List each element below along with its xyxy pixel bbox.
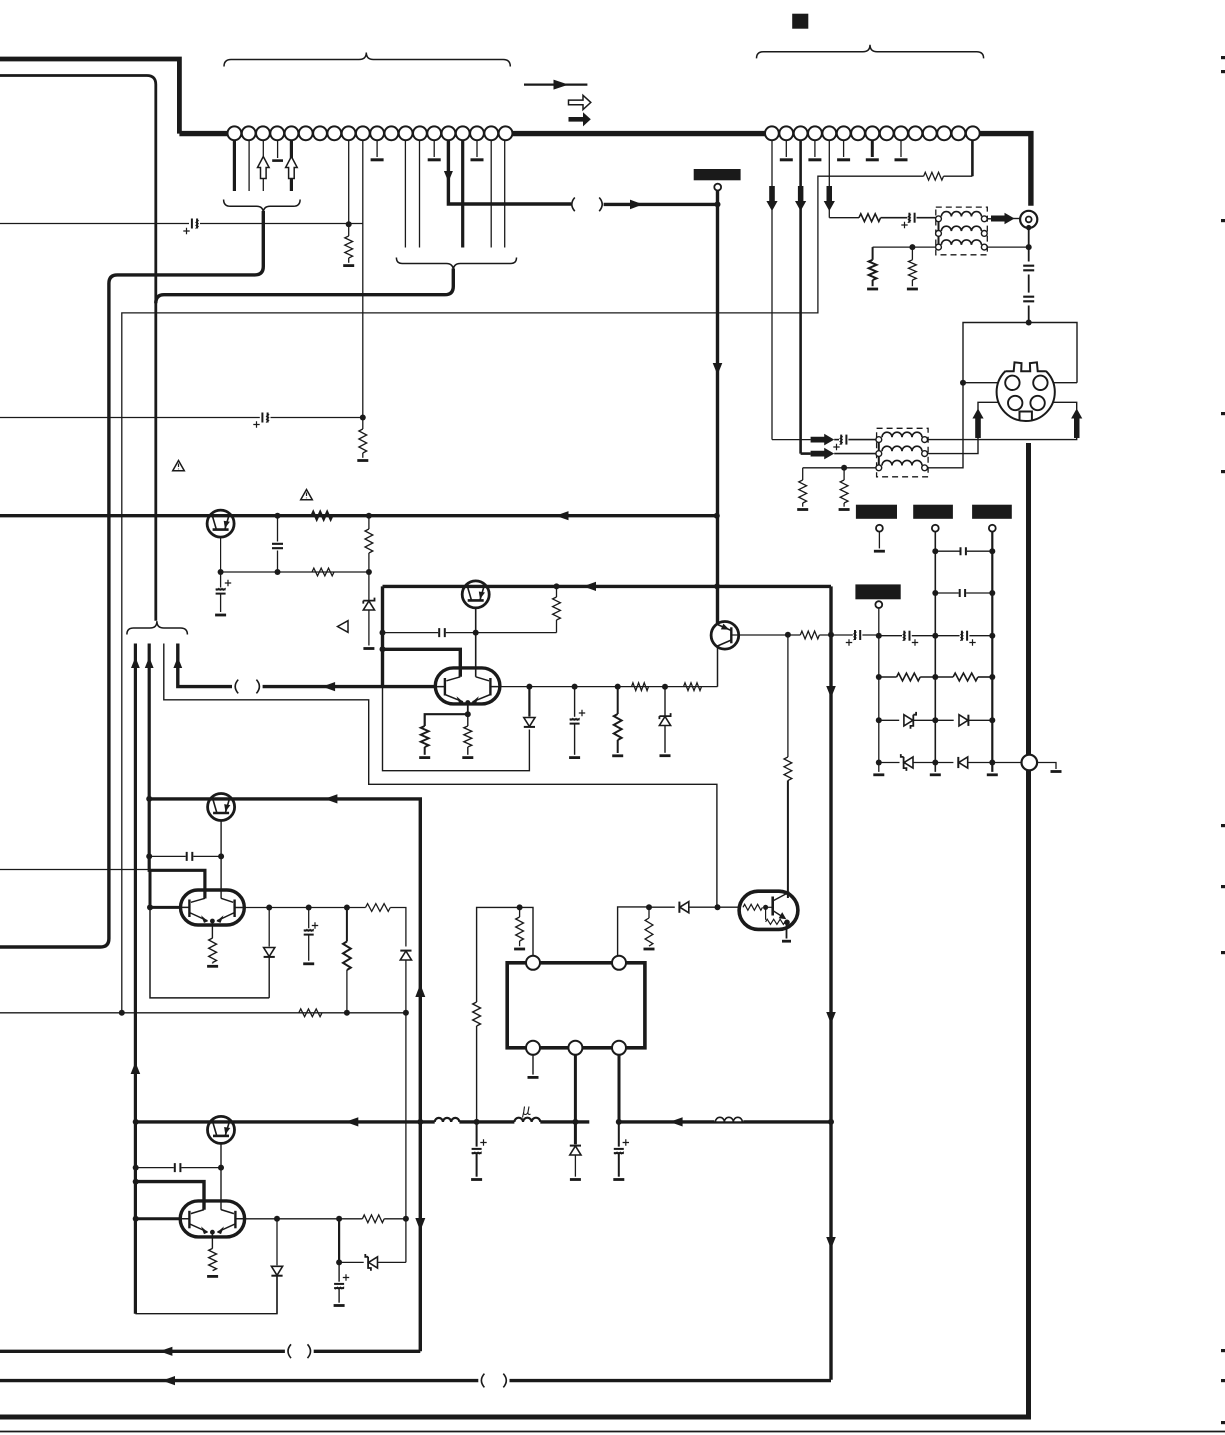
bus connector J1-J2 top xyxy=(179,134,1031,206)
node W1 L xyxy=(133,1179,139,1185)
wire medium from left edge down left column xyxy=(0,76,156,621)
wire Q5 emitter xyxy=(786,923,788,939)
arrow up W4 xyxy=(173,657,182,668)
wire Q3 stem xyxy=(475,608,477,677)
wire RCA ground chain xyxy=(1028,228,1030,323)
arrow on W4 xyxy=(322,682,335,691)
wire Q6 stem xyxy=(220,821,222,899)
legend arrow open block xyxy=(569,95,591,109)
node q9 d2 xyxy=(336,1216,342,1222)
wire R21 to Q9 xyxy=(787,781,789,899)
J1 pin 9 wire xyxy=(348,140,350,224)
inductor L1 xyxy=(435,1118,460,1122)
arrow row2 xyxy=(811,448,835,460)
wire caps row B-C xyxy=(935,635,959,637)
black label rect A xyxy=(856,505,897,519)
wire Q2 base loop xyxy=(383,687,530,771)
bus supply line B xyxy=(383,585,832,588)
J1 pin 19 wire xyxy=(490,140,492,247)
wire x339 drop xyxy=(338,1219,340,1263)
node B diode row2 xyxy=(932,760,938,766)
black label rect D xyxy=(855,584,900,599)
J2 ground pin 4 xyxy=(866,140,879,160)
node y572 b xyxy=(275,569,281,575)
resistor R4 xyxy=(312,568,334,576)
node C diode row1 xyxy=(989,717,995,723)
arrow down x831 mid xyxy=(826,1012,836,1024)
resistor R13 xyxy=(800,631,819,639)
arrow up S-video right xyxy=(1071,409,1082,439)
zener diode D6 xyxy=(901,754,913,771)
capacitor C19 electrolytic xyxy=(614,1122,629,1177)
wire zener link xyxy=(339,1261,364,1263)
arrow to RCA xyxy=(991,213,1015,225)
wire BC row1 xyxy=(935,550,992,552)
ground G16 xyxy=(873,773,884,776)
wire right pin link xyxy=(1048,382,1077,384)
node C diode row2 xyxy=(989,760,995,766)
resistor R11 inline xyxy=(632,683,649,691)
wire line2 left xyxy=(0,417,260,419)
wire base line to x831 xyxy=(819,634,852,636)
wire J2 pin1 drop xyxy=(771,140,773,439)
diode D5 xyxy=(959,715,968,726)
wire bottom return B right xyxy=(510,1379,832,1382)
ground G17 xyxy=(930,773,941,776)
ground G4 xyxy=(363,647,374,650)
wire row1 cap link xyxy=(834,439,839,441)
node bus D x575 xyxy=(572,1119,578,1125)
diode D11 xyxy=(570,1122,581,1177)
J1 pin 11 ground xyxy=(371,140,384,160)
transformer T2 winding 1 xyxy=(882,432,922,437)
wire U1 botright xyxy=(618,1055,621,1122)
node q9 d1 xyxy=(274,1216,280,1222)
diode D12 xyxy=(271,1219,282,1314)
capacitor C18 electrolytic xyxy=(472,1122,487,1177)
node y572 a xyxy=(218,569,224,575)
J1 pin 10 wire xyxy=(362,140,364,417)
wire R14 to C8 xyxy=(881,217,908,219)
J1 pin 1 wire xyxy=(233,140,236,191)
wire W2 xyxy=(149,644,205,899)
ground G10 xyxy=(867,288,878,291)
resistor R9 xyxy=(464,714,472,755)
J1 pin 3 wire xyxy=(262,140,264,191)
wire w-row1 into T2 xyxy=(772,439,811,441)
transformer T2 dashed box xyxy=(877,428,929,477)
wire cap row y1167 xyxy=(136,1167,221,1169)
capacitor C5 xyxy=(438,628,446,637)
wire bottom return A right xyxy=(314,1350,421,1353)
node q7 d2 xyxy=(306,905,312,911)
resistor R6 xyxy=(924,172,944,180)
J1 pin 18 ground xyxy=(471,140,484,160)
warning triangle 3 left-pointing xyxy=(338,621,349,633)
ground G15 xyxy=(1051,770,1062,773)
inductor L3 xyxy=(714,1113,743,1122)
node U1 in xyxy=(517,904,523,910)
node RCA shield xyxy=(1026,225,1031,230)
wire collector line x787 xyxy=(787,635,789,757)
wire y572 link xyxy=(221,571,369,573)
transistor Q9 dual oval xyxy=(180,1201,244,1237)
node bus B x717 xyxy=(714,583,720,589)
wire R27 corner down xyxy=(390,908,406,947)
wire L to Q9 collector xyxy=(136,1182,204,1210)
J1 pin 14 wire xyxy=(419,140,421,247)
wire T1 out row1 xyxy=(987,218,991,220)
wire diode row1 c xyxy=(968,719,992,721)
wire rectA ground xyxy=(878,532,880,549)
arrow up W1 xyxy=(131,657,140,668)
wire J2 pin3 drop xyxy=(799,140,802,453)
node box top xyxy=(1026,320,1032,326)
diode D2 xyxy=(524,687,535,727)
transistor Q8 xyxy=(208,1116,235,1143)
node A diode row2 xyxy=(876,760,882,766)
capacitor C16 xyxy=(186,852,194,861)
ground G24 xyxy=(303,962,314,965)
break bottom B xyxy=(481,1374,506,1388)
wire diode row2 b xyxy=(913,762,953,764)
node bus A cap junction xyxy=(275,513,281,519)
capacitor C1 polarized xyxy=(183,218,199,235)
break symbol on W4 line xyxy=(235,680,259,694)
J1 pin 4 wire with terminator xyxy=(272,140,283,160)
wire base vertical x150 upper xyxy=(149,870,152,907)
diode D7 xyxy=(958,757,967,768)
connector J2 (15-pin header) xyxy=(765,126,980,140)
resistor R26 xyxy=(343,908,351,1013)
wire x405 down xyxy=(405,960,407,1262)
IC U1 pin top-left xyxy=(526,956,540,970)
arrow up W1 lower xyxy=(131,1062,141,1074)
ground G25 xyxy=(471,1178,482,1181)
wire bottom return B left xyxy=(0,1379,478,1382)
ground G26 xyxy=(570,1178,581,1181)
capacitor C15 electrolytic xyxy=(960,630,976,646)
capacitor C11 electrolytic xyxy=(833,434,848,451)
capacitor C14 electrolytic xyxy=(902,630,918,646)
node y247 r2 xyxy=(909,244,915,250)
node junction line2 xyxy=(360,415,366,421)
node q7 d3 xyxy=(344,905,350,911)
page-edge text fragments right margin xyxy=(1221,56,1225,1424)
ground G28 xyxy=(207,1275,218,1278)
legend arrow solid block xyxy=(569,112,591,126)
black label square section 2 xyxy=(792,14,808,29)
node out d2 xyxy=(572,684,578,690)
arrow up W2 xyxy=(145,657,154,668)
wire thick top-left feed to connector J1 xyxy=(0,59,179,134)
wire S-video top box xyxy=(963,323,1077,383)
node Q8 cap xyxy=(218,1165,224,1171)
node bus D w1 xyxy=(133,1119,139,1125)
wire y217 to T1 xyxy=(829,217,859,219)
J1 pin 16 down-arrow xyxy=(444,171,453,182)
bus line D right segment xyxy=(619,1120,831,1123)
wire diode row1 a xyxy=(879,719,899,721)
resistor R14 xyxy=(859,214,881,222)
wire W4 xyxy=(178,644,232,687)
wire y247 row xyxy=(873,246,936,248)
IC U1 pin bot-mid xyxy=(568,1041,582,1055)
arrow bottom B xyxy=(162,1376,175,1385)
ground G23 xyxy=(207,965,218,968)
wire base vertical x150 lower xyxy=(150,907,269,998)
resistor R2 xyxy=(359,418,367,458)
J2 ground pin 1 xyxy=(780,140,793,160)
zener diode D13 xyxy=(365,1254,377,1271)
J1 pin 15 ground xyxy=(428,140,441,160)
arrow J2p5 xyxy=(824,186,835,211)
resistor R18 xyxy=(840,468,848,507)
arrow up x420 xyxy=(415,984,425,997)
wire row3 left xyxy=(803,467,876,469)
wire T2 row2 to S-video xyxy=(928,402,1009,453)
wire column B xyxy=(934,532,936,772)
node out d4 xyxy=(662,684,668,690)
ground G29 xyxy=(334,1304,345,1307)
wire base line to column A xyxy=(862,634,878,636)
wire res row C xyxy=(978,676,992,678)
wire cap row y856 xyxy=(149,855,221,857)
resistor R15 xyxy=(869,247,877,286)
ground G18 xyxy=(987,773,998,776)
resistor R12 inline xyxy=(684,683,702,691)
break symbol on video line xyxy=(572,198,602,212)
wire arrow to jack xyxy=(1012,218,1020,220)
wire W4 resume to Q2 xyxy=(263,685,436,688)
wire w-row2 into T2 xyxy=(801,452,811,455)
ground G5 xyxy=(419,756,430,759)
IC U1 box xyxy=(507,963,645,1048)
J2 ground pin 2 xyxy=(808,140,821,160)
arrow on bus D xyxy=(345,1117,358,1126)
node A caps row xyxy=(876,633,882,639)
node out d3 xyxy=(615,684,621,690)
wire Q9 input L xyxy=(618,907,649,957)
wire caps row to C xyxy=(969,635,992,637)
bus supply line A xyxy=(0,514,717,517)
wire brace stem to mid-left rail xyxy=(156,269,454,304)
capacitor C20 xyxy=(174,1163,182,1172)
pin circle under rect A xyxy=(876,525,883,532)
arrow down on x717 xyxy=(713,363,723,375)
node q7 d1 xyxy=(266,905,272,911)
wire audio line right xyxy=(200,223,363,225)
wire L to Q2 collector xyxy=(383,649,461,677)
wire x831 vertical xyxy=(829,586,832,1379)
node bus D x475 xyxy=(474,1119,480,1125)
J1 pin 13 wire xyxy=(404,140,406,247)
wire to diode D8 xyxy=(649,906,675,908)
diode D10 xyxy=(400,951,411,960)
wire bottom return A left xyxy=(0,1350,285,1353)
wire Q1 collector stem xyxy=(220,537,222,572)
wire left thin y869 xyxy=(0,869,149,871)
arrow J2p1 xyxy=(766,186,777,211)
resistor R17 xyxy=(799,468,807,507)
IC U1 pin top-right xyxy=(612,956,626,970)
arrow on bus B xyxy=(583,582,596,591)
transistor Q1 xyxy=(207,510,234,537)
arrow down x420 xyxy=(415,1218,425,1231)
node cap line left xyxy=(380,630,386,636)
inductor L2 with mu xyxy=(514,1107,540,1122)
node Q6 cap xyxy=(218,853,224,859)
wire Q7 base left xyxy=(150,906,181,909)
test point circle xyxy=(1022,755,1038,771)
node Q7 base xyxy=(147,904,153,910)
wire res row mid xyxy=(920,676,953,678)
J1 pin 5 open up-arrow xyxy=(286,157,298,179)
capacitor C13 xyxy=(959,589,966,597)
capacitor C6 electrolytic xyxy=(570,687,586,755)
wire U1 botleft ground xyxy=(532,1055,534,1075)
wire Q9 base left xyxy=(136,1217,181,1220)
IC U1 pin bot-right xyxy=(612,1041,626,1055)
arrow J2p3 xyxy=(795,186,806,211)
resistor R24 xyxy=(473,1002,481,1026)
brace under J1 right pins xyxy=(396,258,516,271)
wire to J2 pin 15 xyxy=(944,175,973,177)
capacitor C9 xyxy=(1023,265,1034,272)
node C cap row 2 xyxy=(989,590,995,596)
resistor R5 xyxy=(365,516,373,572)
node B cap row 2 xyxy=(932,590,938,596)
arrow row1 xyxy=(811,434,835,446)
wire Q2 output line xyxy=(500,686,718,688)
wire U1 botmid xyxy=(574,1055,577,1122)
wire diode row2 c xyxy=(968,762,1021,764)
capacitor C2 polarized xyxy=(253,412,269,428)
node junction on audio line xyxy=(346,221,352,227)
node Q3 cap junction xyxy=(473,630,479,636)
capacitor C8 electrolytic xyxy=(901,212,916,229)
node x831 base xyxy=(828,632,834,638)
black label rect C xyxy=(972,505,1012,519)
ground G1 xyxy=(343,264,354,267)
wire Q8 stem xyxy=(220,1143,222,1209)
RCA jack J3 xyxy=(1020,211,1037,228)
node W2 cap xyxy=(146,853,152,859)
pin circle video xyxy=(714,184,721,191)
frame bottom thin xyxy=(0,1431,1225,1433)
node C res row xyxy=(989,674,995,680)
transistor Q6 xyxy=(208,794,235,821)
resistor R22 xyxy=(645,907,653,946)
node x717 bus A xyxy=(714,513,720,519)
ground G21 xyxy=(514,948,525,951)
wire bus B drop x382 xyxy=(381,586,384,686)
wire T2 row3 to pin link xyxy=(928,383,964,468)
wire emitter left xyxy=(425,714,468,726)
node W1 Q9 base xyxy=(133,1216,139,1222)
node B res row xyxy=(932,674,938,680)
node sense x121 xyxy=(119,1010,125,1016)
arrow up S-video left xyxy=(972,409,983,439)
node sense x346 xyxy=(344,1010,350,1016)
wire W3 sense xyxy=(164,644,717,908)
ground G2 xyxy=(357,459,368,462)
capacitor C17 electrolytic xyxy=(304,908,319,961)
resistor R21 xyxy=(784,757,792,781)
transformer T1 winding 3 xyxy=(941,240,981,245)
pin circle under rect C xyxy=(989,525,996,532)
arrow on bus D right xyxy=(670,1117,683,1126)
wire Q9 emitter xyxy=(211,1232,213,1248)
wire brace stem to left rail xyxy=(0,211,263,947)
transformer T2 left link xyxy=(878,441,880,466)
wire R30 to x405 xyxy=(384,1218,406,1220)
wire Q9 out row xyxy=(244,1218,362,1220)
node A res row xyxy=(876,674,882,680)
wire Q7 emitter xyxy=(211,921,213,938)
node W2 bus C xyxy=(146,796,152,802)
resistor R19 xyxy=(897,673,921,681)
wire J2 pin15 stub xyxy=(971,140,974,176)
node box left xyxy=(960,380,966,386)
wire W1 xyxy=(134,644,137,1314)
capacitor C4 electrolytic xyxy=(216,572,232,612)
transformer T1 pins xyxy=(936,216,988,250)
black label rect B xyxy=(913,505,953,519)
node W1 cap xyxy=(133,1165,139,1171)
wire y247 right xyxy=(987,246,1028,248)
transistor Q3 xyxy=(462,581,489,608)
resistor R30 xyxy=(362,1215,384,1223)
transistor Q4 xyxy=(711,622,739,650)
wire sense row y1012 xyxy=(0,1012,406,1014)
capacitor C12 xyxy=(960,547,967,555)
bus right vertical to frame xyxy=(0,443,1029,1417)
resistor R1 xyxy=(345,224,353,263)
resistor R28 xyxy=(299,1009,322,1017)
J2 ground pin 3 xyxy=(837,140,850,160)
wire J2 pin5 drop xyxy=(828,140,830,218)
resistor R27 xyxy=(366,904,391,912)
brace wire group left xyxy=(127,621,187,634)
transistor Q5 oval xyxy=(739,891,798,929)
wire test point to ground xyxy=(1037,763,1056,770)
ground G20 xyxy=(782,940,791,943)
node base-collector Q9 xyxy=(785,632,791,638)
wire W1 return box xyxy=(135,1277,277,1314)
node Q2 emitter xyxy=(465,711,471,717)
capacitor C3 xyxy=(272,516,283,572)
node bus D x420 xyxy=(417,1119,423,1125)
transformer T2 winding 2 xyxy=(882,446,922,451)
wire Q7 out row xyxy=(244,907,366,909)
wire column A xyxy=(878,608,880,772)
pin circle under rect B xyxy=(932,525,939,532)
ground G27 xyxy=(613,1178,624,1181)
warning triangle 1 xyxy=(173,461,185,471)
node zener row xyxy=(336,1259,342,1265)
capacitor C10 xyxy=(1023,296,1034,303)
node out d1 xyxy=(526,684,532,690)
zener diode D4 xyxy=(904,712,916,729)
resistor R10 xyxy=(614,687,622,753)
arrow bottom A xyxy=(159,1347,172,1356)
node W3-Q9 base xyxy=(715,904,721,910)
bus line C xyxy=(149,799,420,1351)
node row3 junction xyxy=(841,465,847,471)
wire caps row to B xyxy=(912,635,936,637)
wire line2 right xyxy=(271,417,363,419)
